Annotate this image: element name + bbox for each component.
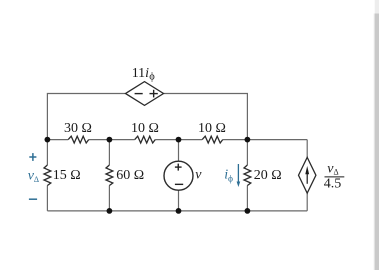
resistor 10 ohm left — [135, 136, 156, 143]
node dot bottom rail at source — [176, 208, 182, 214]
resistor 20 ohm — [244, 165, 251, 186]
resistor 60 ohm — [106, 165, 113, 186]
blue current arrow i_phi — [237, 164, 239, 183]
svg-text:10 Ω: 10 Ω — [131, 121, 159, 136]
svg-text:20 Ω: 20 Ω — [254, 168, 282, 183]
svg-text:15 Ω: 15 Ω — [53, 168, 81, 183]
dependent current source diamond — [299, 157, 316, 193]
minus sign inside circle — [175, 183, 183, 185]
blue plus label — [29, 153, 36, 161]
wire: top rail right segment — [164, 94, 248, 140]
wire: right branch verticals — [306, 140, 308, 211]
wire: bottom rail — [47, 210, 307, 212]
scrollbar strip — [375, 14, 379, 270]
node dot bottom rail at 20ohm — [245, 208, 251, 214]
blue minus label — [29, 198, 37, 200]
plus sign inside top diamond — [150, 90, 158, 98]
node dot middle rail at source — [176, 137, 182, 143]
wire: source branch verticals — [178, 140, 180, 211]
minus sign inside top diamond — [135, 93, 143, 95]
wire: left branch verticals — [46, 140, 48, 211]
node dot bottom rail at 60ohm — [107, 208, 113, 214]
wire: 20ohm branch verticals — [246, 140, 248, 211]
svg-text:4.5: 4.5 — [324, 177, 342, 192]
dependent voltage source diamond 11i_phi — [126, 82, 164, 106]
resistor 10 ohm right — [202, 136, 223, 143]
svg-text:10 Ω: 10 Ω — [198, 121, 226, 136]
resistor 15 ohm — [44, 165, 51, 186]
arrow inside right diamond — [306, 172, 308, 184]
svg-text:60 Ω: 60 Ω — [116, 168, 144, 183]
wire: 60ohm branch verticals — [108, 140, 110, 211]
svg-text:30 Ω: 30 Ω — [64, 121, 92, 136]
independent voltage source circle — [164, 161, 193, 190]
wire: top rail left segment — [47, 94, 125, 140]
wire: middle rail — [47, 139, 307, 141]
svg-text:v: v — [195, 168, 202, 183]
plus sign inside circle — [175, 164, 182, 171]
node dot middle rail at 60ohm — [107, 137, 113, 143]
node dot middle rail at 20ohm — [245, 137, 251, 143]
node dot middle-left — [45, 137, 51, 143]
resistor 30 ohm — [68, 136, 89, 143]
